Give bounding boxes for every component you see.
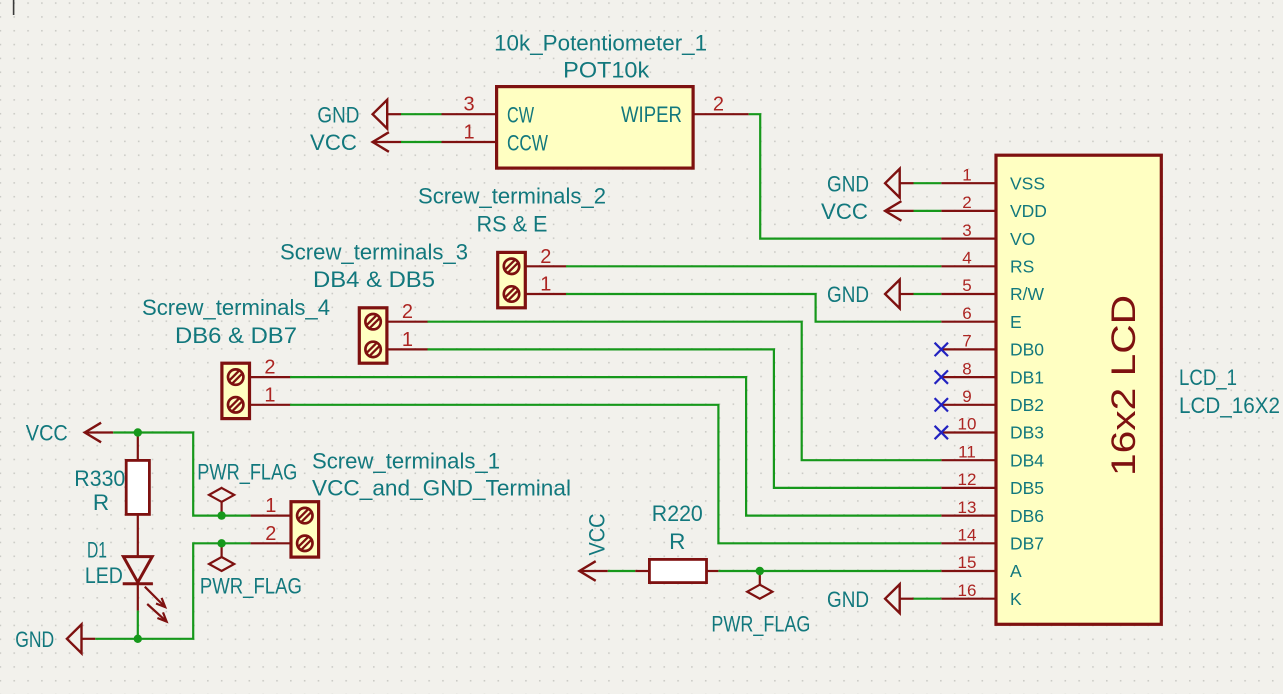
svg-text:7: 7 xyxy=(962,332,971,351)
svg-text:10k_Potentiometer_1: 10k_Potentiometer_1 xyxy=(494,30,707,55)
J3 pin 1 xyxy=(387,329,428,351)
svg-text:Screw_terminals_3: Screw_terminals_3 xyxy=(280,240,468,265)
svg-text:PWR_FLAG: PWR_FLAG xyxy=(200,573,302,598)
potentiometer value POT10k xyxy=(563,58,650,83)
svg-text:5: 5 xyxy=(962,276,971,295)
svg-text:16x2 LCD: 16x2 LCD xyxy=(1105,295,1143,476)
junction GND/LED xyxy=(134,635,142,643)
svg-text:DB2: DB2 xyxy=(1010,395,1044,415)
svg-text:LED: LED xyxy=(85,563,123,588)
LCD pin 15 A xyxy=(941,553,1022,581)
junction VCC/R330 xyxy=(134,428,142,436)
svg-text:D1: D1 xyxy=(87,538,107,563)
LCD pin 4 RS xyxy=(941,249,1034,277)
no-connect flag pin 8 xyxy=(935,370,948,383)
svg-text:GND: GND xyxy=(15,627,54,652)
power symbol GND at LCD VSS xyxy=(885,169,913,198)
J1 pin 1 xyxy=(251,495,291,517)
svg-text:GND: GND xyxy=(317,102,359,127)
svg-text:6: 6 xyxy=(962,304,971,323)
svg-text:R220: R220 xyxy=(652,501,703,526)
svg-text:VCC: VCC xyxy=(26,421,68,446)
PWR_FLAG label (LCD A) xyxy=(711,612,810,637)
svg-text:DB4 & DB5: DB4 & DB5 xyxy=(313,267,435,292)
svg-text:8: 8 xyxy=(962,359,971,378)
svg-text:GND: GND xyxy=(827,587,869,612)
svg-text:LCD_1: LCD_1 xyxy=(1179,365,1237,390)
svg-text:2: 2 xyxy=(540,246,551,268)
power symbol GND (LED circuit) xyxy=(67,624,95,653)
svg-text:DB5: DB5 xyxy=(1010,478,1044,498)
svg-text:16: 16 xyxy=(958,581,977,600)
svg-text:13: 13 xyxy=(958,498,977,517)
no-connect flag pin 10 xyxy=(935,426,948,439)
pot pin 2 WIPER xyxy=(621,94,749,128)
power symbol VCC at R220 xyxy=(579,561,607,581)
svg-text:DB1: DB1 xyxy=(1010,367,1044,387)
svg-text:R: R xyxy=(93,490,109,515)
LED emission arrows xyxy=(145,587,167,622)
svg-text:GND: GND xyxy=(827,282,869,307)
svg-text:VDD: VDD xyxy=(1010,201,1047,221)
svg-text:14: 14 xyxy=(958,526,977,545)
svg-text:Screw_terminals_4: Screw_terminals_4 xyxy=(142,295,330,320)
D1 value LED xyxy=(85,563,123,588)
PWR_FLAG at ST1 pin1 xyxy=(209,488,234,516)
svg-text:CW: CW xyxy=(507,103,535,128)
potentiometer RV1 body (10k_Potentiometer_1) xyxy=(497,87,693,169)
no-connect flag pin 9 xyxy=(935,398,948,411)
svg-text:15: 15 xyxy=(958,553,977,572)
J1 pin 2 xyxy=(251,523,291,545)
LED D1 body xyxy=(123,557,153,611)
PWR_FLAG label (top) xyxy=(197,460,297,485)
J3 reference Screw_terminals_3 xyxy=(280,240,468,265)
no-connect flag pin 7 xyxy=(935,343,948,356)
wire LED cathode to GND rail xyxy=(137,611,139,639)
J3 pin 2 xyxy=(387,301,428,323)
wire GND to K xyxy=(914,598,942,600)
svg-text:1: 1 xyxy=(962,165,971,184)
svg-text:RS & E: RS & E xyxy=(477,211,548,236)
svg-text:3: 3 xyxy=(463,94,474,116)
junction at R220 output xyxy=(756,567,764,575)
power label VCC (VDD) xyxy=(821,199,868,224)
power label VCC (R220, vertical) xyxy=(585,514,610,556)
power label GND (VSS) xyxy=(827,171,869,196)
svg-text:2: 2 xyxy=(265,523,276,545)
power label GND (pot) xyxy=(317,102,359,127)
resistor R1 R330 body xyxy=(126,433,149,558)
svg-text:1: 1 xyxy=(264,384,275,406)
svg-text:K: K xyxy=(1010,589,1022,609)
power label VCC (pot) xyxy=(310,130,357,155)
svg-text:GND: GND xyxy=(827,171,869,196)
svg-text:CCW: CCW xyxy=(507,130,549,155)
svg-text:1: 1 xyxy=(402,329,413,351)
svg-text:A: A xyxy=(1010,561,1022,581)
LCD pin 14 DB7 xyxy=(941,526,1044,554)
svg-text:2: 2 xyxy=(402,301,413,323)
wire J4 pin1 to LCD DB7 xyxy=(290,405,941,544)
J4 reference Screw_terminals_4 xyxy=(142,295,330,320)
LCD symbol text 16x2 LCD xyxy=(1105,295,1143,476)
svg-text:12: 12 xyxy=(958,470,977,489)
LCD pin 8 DB1 xyxy=(941,359,1044,387)
wire VCC rail xyxy=(113,433,250,516)
svg-text:11: 11 xyxy=(958,442,976,461)
svg-text:E: E xyxy=(1010,312,1022,332)
wire VCC to pot pin 1 xyxy=(401,141,442,143)
svg-text:2: 2 xyxy=(713,94,724,116)
svg-text:VSS: VSS xyxy=(1010,173,1045,193)
resistor R2 R220 body xyxy=(635,559,718,582)
wire R220 to LCD A xyxy=(718,570,941,572)
svg-text:R330: R330 xyxy=(74,466,125,491)
svg-text:POT10k: POT10k xyxy=(563,58,650,83)
J2 value RS &amp; E xyxy=(477,211,548,236)
svg-text:DB6 & DB7: DB6 & DB7 xyxy=(175,323,297,348)
connector J3 Screw_terminals_3 body xyxy=(359,308,387,363)
R2 value R xyxy=(669,529,685,554)
wire VCC to VDD xyxy=(914,210,942,212)
LCD pin 1 VSS xyxy=(941,165,1045,193)
J1 value VCC_and_GND_Terminal xyxy=(312,476,571,501)
svg-text:1: 1 xyxy=(540,274,551,296)
J4 value DB6 &amp; DB7 xyxy=(175,323,297,348)
svg-text:Screw_terminals_2: Screw_terminals_2 xyxy=(418,184,606,209)
IC U1 16x2 LCD body xyxy=(996,155,1161,624)
power symbol VCC (LED circuit) xyxy=(85,423,113,443)
svg-text:4: 4 xyxy=(962,249,971,268)
svg-text:PWR_FLAG: PWR_FLAG xyxy=(197,460,297,485)
PWR_FLAG at LCD A xyxy=(747,571,772,599)
power label GND (R/W) xyxy=(827,282,869,307)
wire GND to pot pin 3 xyxy=(401,113,442,115)
pot pin 1 CCW xyxy=(442,122,549,156)
svg-text:9: 9 xyxy=(962,387,971,406)
R1 reference R330 xyxy=(74,466,125,491)
LCD value LCD_16X2 xyxy=(1179,393,1280,418)
LCD pin 6 E xyxy=(941,304,1021,332)
LCD reference LCD_1 xyxy=(1179,365,1237,390)
svg-text:DB0: DB0 xyxy=(1010,340,1044,360)
connector J2 Screw_terminals_2 body xyxy=(498,252,526,307)
LCD pin 12 DB5 xyxy=(941,470,1044,498)
J4 pin 1 xyxy=(250,384,291,406)
junction VCC/ST1 pin1 xyxy=(217,511,225,519)
svg-text:VCC: VCC xyxy=(310,130,357,155)
wire J4 pin2 to LCD DB6 xyxy=(290,377,941,515)
pot pin 3 CW xyxy=(442,94,535,128)
svg-text:VCC: VCC xyxy=(821,199,868,224)
power symbol GND at LCD R/W xyxy=(885,280,913,309)
potentiometer reference 10k_Potentiometer_1 xyxy=(494,30,707,55)
power label GND (LED circuit) xyxy=(15,627,54,652)
wire J3 pin1 to LCD DB5 xyxy=(428,349,942,488)
svg-text:R: R xyxy=(669,529,685,554)
LCD pin 10 DB3 xyxy=(941,415,1044,443)
svg-text:Screw_terminals_1: Screw_terminals_1 xyxy=(312,448,500,473)
svg-text:RS: RS xyxy=(1010,257,1034,277)
svg-text:3: 3 xyxy=(962,221,971,240)
wire J3 pin2 to LCD DB4 xyxy=(428,322,942,461)
J2 pin 1 xyxy=(525,274,566,296)
svg-text:2: 2 xyxy=(962,193,971,212)
svg-text:DB3: DB3 xyxy=(1010,423,1044,443)
svg-text:1: 1 xyxy=(265,495,276,517)
J3 value DB4 &amp; DB5 xyxy=(313,267,435,292)
svg-text:PWR_FLAG: PWR_FLAG xyxy=(711,612,810,637)
LCD pin 16 K xyxy=(941,581,1022,609)
junction GND/ST1 pin2 xyxy=(217,539,225,547)
power symbol VCC at pot CCW xyxy=(373,132,401,152)
power symbol GND at LCD K xyxy=(885,584,913,613)
LCD pin 9 DB2 xyxy=(941,387,1044,415)
connector J4 Screw_terminals_4 body xyxy=(222,363,250,418)
svg-text:DB7: DB7 xyxy=(1010,534,1044,554)
J2 reference Screw_terminals_2 xyxy=(418,184,606,209)
wire J2 pin2 to LCD RS xyxy=(566,265,941,267)
LCD pin 2 VDD xyxy=(941,193,1047,221)
J4 pin 2 xyxy=(250,357,291,379)
power label GND (K) xyxy=(827,587,869,612)
LCD pin 5 R/W xyxy=(941,276,1044,304)
sheet frame edge xyxy=(13,0,15,15)
svg-text:VCC: VCC xyxy=(585,514,610,556)
PWR_FLAG label (bottom) xyxy=(200,573,302,598)
svg-text:DB6: DB6 xyxy=(1010,506,1044,526)
J1 reference Screw_terminals_1 xyxy=(312,448,500,473)
power symbol VCC at LCD VDD xyxy=(885,201,913,221)
wire VCC to R220 xyxy=(608,570,636,572)
svg-text:WIPER: WIPER xyxy=(621,102,682,127)
wire pot wiper to LCD VO xyxy=(749,114,942,238)
svg-text:R/W: R/W xyxy=(1010,284,1045,304)
svg-text:VO: VO xyxy=(1010,229,1035,249)
LCD pin 11 DB4 xyxy=(941,442,1044,470)
wire GND rail xyxy=(95,543,250,639)
svg-text:LCD_16X2: LCD_16X2 xyxy=(1179,393,1280,418)
connector J1 Screw_terminals_1 body xyxy=(291,502,319,557)
wire GND to VSS xyxy=(914,182,942,184)
R1 value R xyxy=(93,490,109,515)
wire J2 pin1 to LCD E xyxy=(566,294,941,322)
PWR_FLAG at ST1 pin2 xyxy=(209,543,234,571)
svg-text:VCC_and_GND_Terminal: VCC_and_GND_Terminal xyxy=(312,476,571,501)
LCD pin 13 DB6 xyxy=(941,498,1044,526)
D1 reference xyxy=(87,538,107,563)
wire GND to R/W xyxy=(914,293,942,295)
power label VCC (LED circuit) xyxy=(26,421,68,446)
LCD pin 3 VO xyxy=(941,221,1035,249)
svg-text:2: 2 xyxy=(264,357,275,379)
svg-text:1: 1 xyxy=(463,122,474,144)
svg-text:DB4: DB4 xyxy=(1010,450,1044,470)
svg-text:10: 10 xyxy=(958,415,977,434)
R2 reference R220 xyxy=(652,501,703,526)
J2 pin 2 xyxy=(525,246,566,268)
LCD pin 7 DB0 xyxy=(941,332,1044,360)
power symbol GND at pot CW xyxy=(373,100,401,129)
